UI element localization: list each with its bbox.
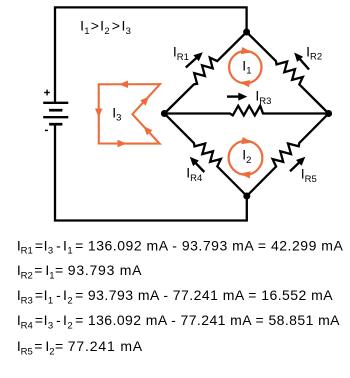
- mesh current loop I3 chevron: [95, 81, 160, 148]
- current arrow IR3: [227, 93, 247, 101]
- resistor R4 (left node to bottom node): [164, 114, 246, 197]
- resistor R2 (top node to right node): [247, 32, 329, 114]
- current arrow IR4: [190, 157, 205, 172]
- wire battery positive to bridge top node: [55, 7, 247, 101]
- node right: [325, 110, 332, 117]
- wire battery negative to bridge bottom node: [55, 125, 247, 221]
- node bottom: [243, 193, 250, 200]
- current arrow IR1: [186, 52, 203, 67]
- resistor R3 (left node to right node): [164, 106, 328, 116]
- battery plus terminal label: [44, 90, 50, 96]
- resistor R1 (left node to top node): [164, 32, 246, 114]
- node left: [161, 110, 168, 117]
- battery B1: [43, 103, 68, 124]
- current arrow IR2: [294, 53, 309, 70]
- current arrow IR5: [290, 157, 305, 172]
- mesh current loop I2: [229, 137, 263, 178]
- node top: [243, 29, 250, 36]
- battery minus terminal label: [45, 129, 48, 131]
- resistor R5 (right node to bottom node): [247, 114, 329, 197]
- mesh current loop I1: [229, 47, 261, 87]
